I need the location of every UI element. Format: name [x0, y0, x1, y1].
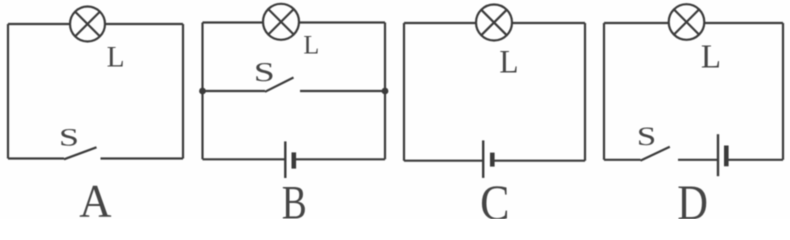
switch S (A) lever [64, 147, 97, 159]
wire D bottom-right segment [726, 159, 783, 161]
wire A right side [182, 24, 184, 159]
svg-text:A: A [79, 174, 111, 219]
battery (C) [483, 140, 492, 178]
svg-text:L: L [107, 41, 125, 73]
wire D top-right segment [704, 22, 783, 24]
wire C bottom-left segment [404, 160, 483, 162]
wire D middle segment (switch to battery) [678, 159, 718, 161]
svg-text:D: D [677, 176, 708, 219]
wire B right side [384, 23, 386, 160]
wire C top-right segment [512, 22, 585, 24]
wire C bottom-right segment [492, 160, 585, 162]
switch S (D) lever [641, 147, 670, 161]
svg-text:L: L [701, 38, 721, 76]
wire B middle-right segment [300, 90, 385, 92]
svg-text:B: B [282, 177, 307, 219]
wire A top-left segment [8, 23, 70, 25]
svg-text:S: S [637, 121, 657, 150]
wire D top-left segment [604, 22, 669, 24]
wire B middle-left segment [203, 90, 266, 92]
wire D bottom-left segment [604, 159, 641, 161]
junction dot B left [199, 88, 206, 95]
svg-text:L: L [499, 43, 518, 80]
switch S (B) lever [265, 78, 294, 92]
battery (B) [285, 141, 294, 178]
lamp L (C) [476, 5, 512, 41]
wire C right side [584, 23, 586, 161]
wire A left side [7, 24, 9, 159]
wire D right side [782, 23, 784, 160]
wire A bottom-left segment [8, 157, 64, 159]
svg-text:C: C [480, 175, 509, 219]
wire D left side [603, 23, 605, 160]
wire B top-right segment [299, 21, 385, 23]
wire B left side [201, 23, 203, 160]
wire A bottom-right segment [101, 157, 184, 159]
wire B top-left segment [203, 21, 264, 23]
lamp L (A) [70, 7, 105, 42]
svg-text:S: S [59, 123, 79, 151]
wire A top-right segment [105, 23, 183, 25]
wire B bottom-right segment [294, 158, 385, 160]
lamp L (B) [263, 4, 299, 40]
wire C top-left segment [404, 22, 476, 24]
battery (D) [718, 134, 726, 176]
junction dot B right [382, 88, 389, 95]
wire C left side [403, 23, 405, 161]
wire B bottom-left segment [203, 158, 286, 160]
svg-text:S: S [254, 58, 275, 88]
svg-text:L: L [303, 30, 319, 59]
lamp L (D) [669, 4, 705, 40]
